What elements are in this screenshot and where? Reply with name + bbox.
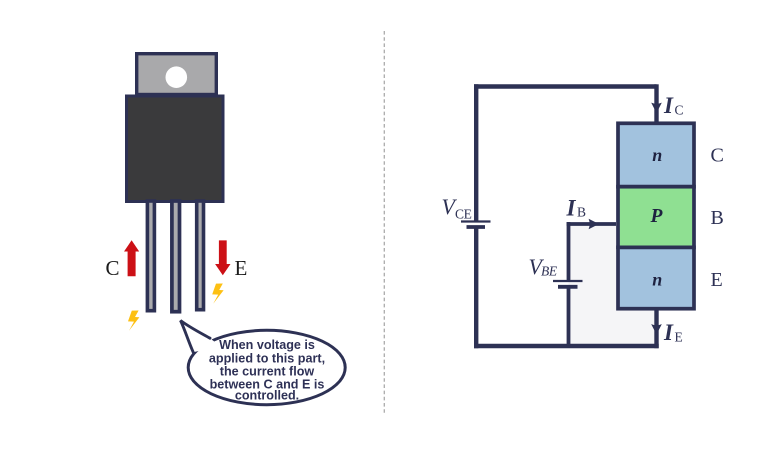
- svg-text:C: C: [106, 256, 120, 280]
- battery V_BE positive plate: [553, 280, 583, 282]
- svg-text:C: C: [711, 145, 724, 167]
- svg-text:controlled.: controlled.: [235, 388, 299, 402]
- battery V_CE negative plate: [467, 225, 486, 229]
- svg-text:applied to this part,: applied to this part,: [209, 351, 325, 365]
- wire: I_B horizontal: [567, 222, 616, 226]
- pin 1 (collector lead): [147, 201, 154, 311]
- wire: top horizontal: [474, 84, 657, 88]
- transistor block: P middle (base): [618, 187, 694, 248]
- svg-text:CE: CE: [455, 206, 472, 221]
- light enclosed region (B-E loop): [569, 224, 657, 346]
- arrowhead I_B: [589, 219, 599, 230]
- red arrow up (C): [124, 240, 139, 276]
- speech bubble tail: [181, 321, 221, 353]
- wire: right top drop: [654, 84, 658, 122]
- battery V_CE positive plate: [461, 220, 491, 222]
- separator dashed line: [383, 31, 385, 413]
- svg-text:P: P: [650, 206, 664, 227]
- pin 2 (base lead): [172, 201, 180, 312]
- svg-text:E: E: [235, 256, 248, 280]
- battery V_BE negative plate: [558, 285, 578, 289]
- svg-text:n: n: [652, 145, 662, 165]
- lightning bolt left: [128, 311, 139, 331]
- wire: right bottom drop: [654, 310, 658, 348]
- red arrow down (E): [215, 240, 230, 275]
- svg-text:E: E: [675, 329, 683, 344]
- arrowhead I_E: [651, 324, 662, 334]
- transistor body: [127, 96, 224, 202]
- svg-text:When voltage is: When voltage is: [219, 338, 315, 352]
- svg-text:C: C: [675, 102, 684, 117]
- wire: V_BE vertical with battery gap: [567, 222, 571, 280]
- svg-text:B: B: [577, 205, 586, 220]
- transistor block: n bottom (emitter): [618, 247, 694, 308]
- transistor package tab: [137, 54, 217, 95]
- svg-text:the current flow: the current flow: [220, 364, 315, 378]
- wire: left vertical (with battery gap): [474, 84, 478, 220]
- tab hole: [166, 66, 188, 88]
- arrowhead I_C: [651, 103, 662, 113]
- svg-text:BE: BE: [541, 264, 558, 279]
- svg-text:I: I: [663, 320, 674, 345]
- svg-text:I: I: [566, 195, 577, 220]
- lightning bolt right: [212, 284, 223, 304]
- pin 3 (emitter lead): [197, 201, 204, 310]
- transistor block: n top (collector): [618, 123, 694, 186]
- svg-text:I: I: [663, 93, 674, 118]
- speech bubble ellipse: [188, 330, 345, 404]
- svg-text:E: E: [711, 269, 723, 291]
- wire: bottom horizontal: [474, 344, 659, 348]
- svg-text:B: B: [711, 207, 724, 229]
- svg-text:n: n: [652, 270, 662, 290]
